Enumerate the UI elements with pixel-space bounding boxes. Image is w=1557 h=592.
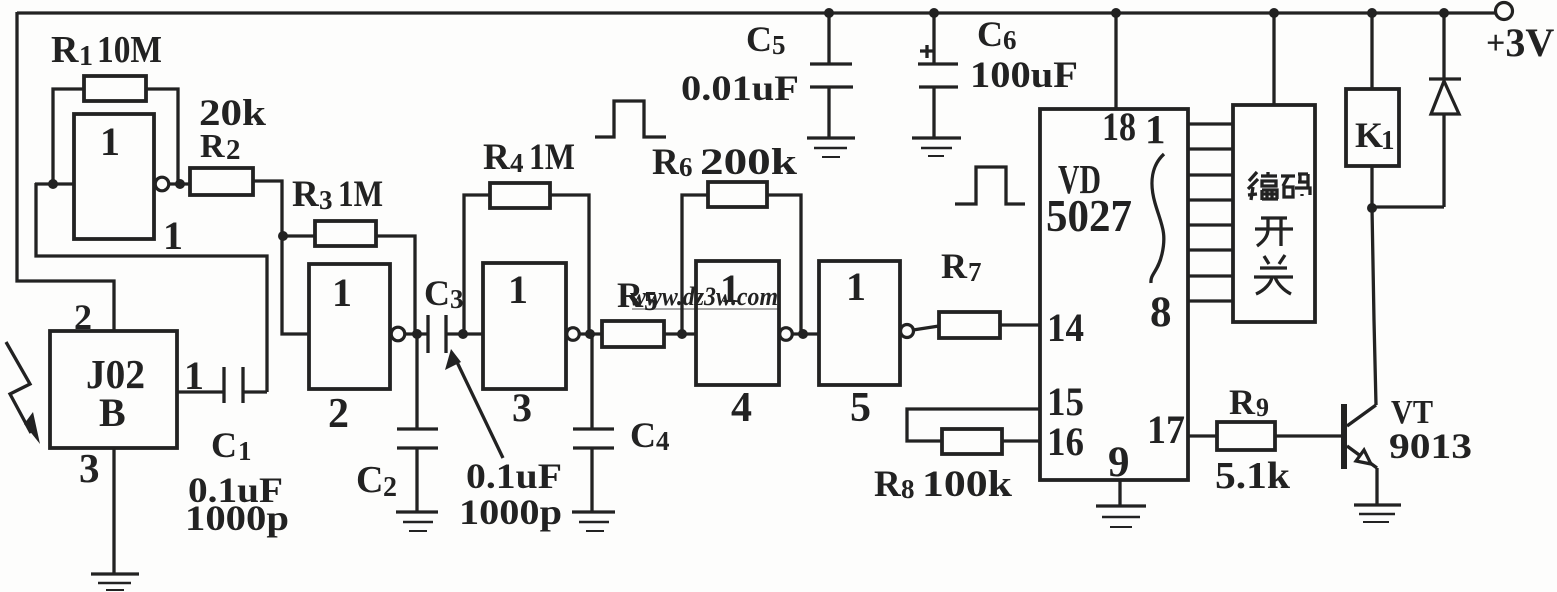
ground VD5027 [1096,506,1146,527]
inverter bubble gate5 [901,325,914,338]
svg-text:14: 14 [1047,305,1084,350]
svg-text:9: 9 [1108,439,1130,486]
resistor R4 [464,183,589,334]
node gate4 output [798,329,808,339]
wire +3V power rail [17,11,1496,14]
op-amp gate U1e (inverter 5) [819,261,900,385]
label 码 [1281,174,1310,197]
pulse waveform symbol left [595,101,666,137]
svg-text:3: 3 [319,185,333,215]
label R6 200k [652,142,798,183]
inverter bubble gate3 [567,328,580,341]
svg-text:5027: 5027 [1046,191,1132,241]
label C1 [211,425,252,466]
IC VD5027 [1040,109,1188,480]
svg-text:17: 17 [1147,407,1185,452]
node gate4 input [677,329,687,339]
wire pin 18 to rail [1114,13,1117,109]
node R3 left [278,231,288,241]
wire gate1 input [35,182,74,185]
ground C5 [807,138,855,157]
svg-text:3: 3 [79,445,100,491]
node C6 rail [929,8,939,18]
label R5 [617,275,658,316]
svg-text:18: 18 [1102,104,1136,149]
ground J02 [91,574,139,590]
label C3 [424,273,464,314]
resistor R1 [53,76,178,184]
op-amp gate U1a (inverter 1) [74,114,154,239]
watermark www.dz3w.com [630,282,780,311]
label R3 1M [292,174,383,215]
node diode rail [1439,8,1449,18]
label R2 [200,128,241,166]
node C5 rail [824,8,834,18]
svg-text:1: 1 [508,267,528,312]
capacitor C1 [177,367,267,403]
node collector [1367,203,1377,213]
squiggle pins 1-8 [1151,154,1164,283]
wire R2 output down to gate2 input [253,181,309,334]
svg-text:B: B [99,390,126,435]
svg-text:7: 7 [968,257,982,287]
wire collector to K1/diode node [1372,208,1376,405]
svg-text:R: R [1229,382,1256,422]
label R8 100k [874,464,1012,505]
node K1 rail [1367,8,1377,18]
svg-text:5: 5 [644,286,658,316]
inverter bubble gate1 [155,177,169,191]
svg-text:200k: 200k [700,142,798,183]
wire bus pins 1-8 to coding switch [1188,124,1233,301]
capacitor C3 [428,315,446,353]
label 开 [1255,218,1293,246]
node coding switch rail [1269,8,1279,18]
svg-text:6: 6 [679,152,693,182]
svg-text:1: 1 [163,213,183,258]
resistor R2 [190,168,253,195]
resistor R9 [1217,422,1341,450]
resistor R6 [682,182,801,334]
resistor R7 [939,312,1041,338]
wire pin 9 to ground [1118,480,1121,506]
op-amp gate U1d (inverter 4) [696,261,779,385]
svg-text:3: 3 [512,385,532,430]
inverter bubble gate2 [391,327,405,341]
ground VT emitter [1354,505,1401,522]
svg-text:5: 5 [850,385,871,431]
lightning arrow shock symbol [6,342,40,444]
svg-text:1000p: 1000p [185,498,289,538]
svg-text:9013: 9013 [1389,426,1472,466]
op-amp gate U1c (inverter 3) [483,263,566,389]
wire J02 pin 3 to ground [112,448,115,574]
label 关 [1254,255,1293,294]
svg-text:8: 8 [901,474,915,504]
svg-text:C: C [424,273,450,313]
svg-text:10M: 10M [97,29,162,71]
svg-text:0.1uF: 0.1uF [466,456,562,496]
capacitor C5 [810,13,853,138]
label R1 10M [51,29,162,72]
wire gate3 output [579,332,602,335]
capacitor C6 electrolytic [918,13,958,138]
svg-text:5.1k: 5.1k [1215,455,1291,497]
label R4 1M [483,137,575,178]
resistor R5 [602,321,696,347]
svg-text:1: 1 [1381,125,1395,155]
svg-text:1M: 1M [338,174,383,215]
svg-text:R: R [292,174,320,215]
svg-text:1: 1 [1145,106,1166,152]
op-amp gate U1b (inverter 2) [309,264,390,389]
wire pin15 loop [907,409,1041,441]
wire pin 17 to R9 [1188,434,1217,437]
node gate1 output [175,179,185,189]
svg-text:3: 3 [450,284,464,314]
capacitor C4 [573,334,614,512]
svg-text:100uF: 100uF [970,55,1078,96]
svg-text:2: 2 [74,297,92,337]
svg-text:1: 1 [238,436,252,466]
inverter bubble gate4 [780,328,793,341]
svg-text:2: 2 [328,391,349,437]
terminal +3V [1496,3,1513,20]
annotation arrow to C3 [445,349,503,458]
svg-text:1: 1 [100,119,120,164]
label C2 [356,459,397,503]
svg-text:1M: 1M [529,137,575,178]
label 编 [1248,172,1278,200]
svg-text:R: R [617,275,644,315]
label C6 [977,14,1017,55]
ground C2 [396,512,438,531]
svg-text:R: R [941,246,968,286]
svg-text:R: R [51,29,79,71]
svg-text:2: 2 [383,472,397,503]
piezo sensor J02 [50,331,177,448]
transistor VT 9013 [1341,404,1377,505]
label C5 [746,19,786,60]
svg-text:4: 4 [731,385,752,431]
wire gate1 output [169,182,191,185]
svg-text:5: 5 [772,30,786,60]
wire feedback from gate1 input to C1 [36,183,267,392]
svg-text:C: C [977,14,1003,54]
ground C4 [572,512,615,531]
svg-text:R: R [200,128,225,165]
svg-text:1: 1 [79,41,93,72]
wire gate2 output [405,332,428,335]
node C3 right [458,329,468,339]
wire coding switch to rail [1272,13,1275,105]
svg-text:R: R [483,137,511,178]
label C4 [630,415,670,456]
relay K1 [1346,13,1399,208]
ground C6 [912,138,961,156]
svg-text:100k: 100k [922,464,1012,505]
wire C3 to gate3 input [446,332,483,335]
svg-text:R: R [652,142,680,183]
svg-text:15: 15 [1047,379,1084,424]
label R9 [1229,382,1269,422]
coding switch box 编码开关 [1233,105,1315,322]
svg-text:C: C [746,19,772,59]
svg-text:K: K [1355,115,1383,155]
wire gate5 output [913,326,939,330]
svg-text:16: 16 [1047,419,1084,464]
svg-text:6: 6 [1003,25,1017,55]
resistor R3 [283,221,415,334]
svg-text:4: 4 [656,426,670,456]
svg-text:1: 1 [332,270,352,315]
svg-text:C: C [630,415,656,455]
wire gate4 output [792,332,819,335]
svg-text:1: 1 [184,353,204,398]
svg-text:C: C [356,459,383,501]
svg-text:C: C [211,425,237,465]
svg-text:4: 4 [510,148,524,178]
svg-text:+3V: +3V [1486,20,1554,65]
svg-text:9: 9 [1256,393,1269,422]
node gate1 input [48,179,58,189]
pulse waveform symbol right [955,167,1025,204]
svg-text:1: 1 [720,266,740,311]
svg-text:2: 2 [226,134,241,166]
node pin18 rail [1111,8,1121,18]
label R7 [941,246,982,287]
capacitor C2 [397,334,438,512]
wire left border from rail to J02 pin 2 [17,12,114,331]
svg-text:1000p: 1000p [459,492,562,532]
svg-text:8: 8 [1150,289,1172,336]
node gate2 output [412,329,422,339]
svg-text:R: R [874,464,902,505]
node gate3 output [585,329,595,339]
diode VD protection [1372,13,1461,207]
svg-text:1: 1 [846,264,866,309]
svg-text:0.01uF: 0.01uF [681,68,799,108]
resistor R8 [942,429,1041,454]
